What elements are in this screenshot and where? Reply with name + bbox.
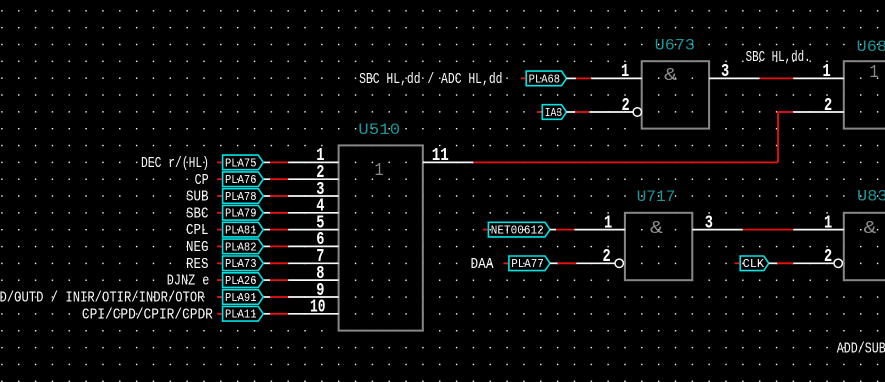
U510 pin 8 wire — [263, 279, 338, 281]
U717 pin 2 number — [603, 247, 611, 267]
U680 pin 2 number — [824, 96, 832, 116]
svg-text:D/OUTD / INIR/OTIR/INDR/OTOR: D/OUTD / INIR/OTIR/INDR/OTOR — [0, 290, 205, 307]
svg-text:PLA77: PLA77 — [511, 258, 544, 271]
svg-text:1: 1 — [870, 62, 879, 83]
svg-text:IA3: IA3 — [545, 107, 563, 120]
svg-text:PLA91: PLA91 — [225, 292, 257, 305]
U717 pin 3 number — [705, 213, 713, 233]
svg-text:1: 1 — [823, 62, 831, 82]
U673 pin 3 number — [721, 62, 729, 82]
net name text DJNZ e — [167, 273, 210, 290]
svg-text:PLA78: PLA78 — [225, 191, 257, 204]
global label PLA76 — [217, 172, 263, 187]
svg-text:U510: U510 — [358, 121, 400, 139]
U680 unit marker 1 — [870, 62, 879, 83]
U717 pin 2 inversion bubble — [615, 259, 623, 267]
svg-text:PLA81: PLA81 — [225, 225, 257, 238]
U836 pin 1 number — [824, 213, 832, 233]
U510 pin 3 wire — [263, 195, 338, 197]
svg-text:1: 1 — [375, 160, 384, 181]
U673 pin 2 number — [622, 96, 630, 116]
global label PLA68 — [521, 71, 567, 86]
highlighted net wire into U680 pin 2 — [778, 111, 793, 113]
svg-text:CPL: CPL — [186, 222, 209, 239]
U836 pin 2 number — [824, 247, 832, 267]
U510 pin 2 wire — [263, 178, 338, 180]
U510 pin 11 output wire (white pin stub) — [423, 161, 474, 163]
wire IA3 to U673 pin 2 — [567, 111, 634, 113]
U510 pin 5 number — [316, 213, 324, 233]
global label PLA91 — [217, 290, 263, 305]
svg-text:CP: CP — [195, 172, 209, 189]
U510 pin 6 number — [316, 230, 324, 250]
global label PLA26 — [217, 273, 263, 288]
net name text RES — [186, 256, 209, 273]
svg-text:2: 2 — [824, 247, 832, 267]
U510 pin 11 number — [432, 146, 449, 166]
svg-text:11: 11 — [432, 146, 449, 166]
U680 reference label — [857, 38, 885, 56]
IC U673 body — [642, 61, 709, 128]
U510 pin 4 wire — [263, 212, 338, 214]
free text SBC HL,dd / ADC HL,dd — [359, 71, 502, 88]
svg-text:SBC HL,dd / ADC HL,dd: SBC HL,dd / ADC HL,dd — [359, 71, 502, 88]
svg-text:U680: U680 — [857, 38, 885, 56]
net name text D/OUTD / INIR/OTIR/INDR/OTOR (clipped left) — [0, 290, 205, 307]
free text ADD/SUB (clipped at right edge) — [837, 341, 885, 358]
svg-text:SUB: SUB — [186, 189, 209, 206]
global label PLA78 — [217, 189, 263, 204]
svg-text:3: 3 — [721, 62, 729, 82]
U673 AND symbol — [664, 66, 677, 86]
svg-text:PLA75: PLA75 — [225, 157, 257, 170]
U673 pin 2 inversion bubble — [633, 108, 641, 116]
IC U717 body — [625, 213, 692, 280]
svg-text:U673: U673 — [655, 37, 695, 55]
svg-text:NET00612: NET00612 — [491, 225, 544, 238]
svg-text:CPI/CPD/CPIR/CPDR: CPI/CPD/CPIR/CPDR — [82, 306, 213, 323]
net name text CP — [195, 172, 209, 189]
IC U680 body (clipped at right edge) — [844, 61, 885, 128]
U510 pin 1 number — [316, 146, 324, 166]
svg-text:DJNZ e: DJNZ e — [167, 273, 210, 290]
svg-text:ADD/SUB r: ADD/SUB r — [837, 341, 885, 358]
U510 pin 5 wire — [263, 229, 338, 231]
U510 unit marker 1 — [375, 160, 384, 181]
net name text NEG — [186, 239, 209, 256]
svg-text:PLA79: PLA79 — [225, 208, 257, 221]
U510 pin 9 wire — [263, 296, 338, 298]
U836 pin 2 inversion bubble — [834, 259, 842, 267]
global label IA3 — [537, 105, 567, 120]
svg-text:&: & — [864, 219, 877, 239]
U673 pin 1 number — [621, 62, 629, 82]
U717 reference label — [637, 188, 676, 206]
U510 pin 1 wire — [263, 161, 338, 163]
U680 pin 2 wire (white pin stub) — [793, 111, 844, 113]
svg-text:SBC: SBC — [186, 205, 209, 222]
svg-text:PLA82: PLA82 — [225, 241, 257, 254]
global label PLA75 — [217, 155, 263, 170]
svg-text:NEG: NEG — [186, 239, 209, 256]
U510 pin 7 number — [316, 247, 324, 267]
global label PLA77 — [503, 256, 550, 271]
wire NET00612 to U717 pin 1 — [550, 229, 625, 231]
global label NET00612 — [483, 222, 550, 237]
svg-text:DAA: DAA — [471, 256, 494, 273]
U510 pin 8 number — [316, 264, 324, 284]
global label PLA79 — [217, 206, 263, 221]
net name text SBC — [186, 205, 209, 222]
U510 pin 10 wire — [263, 313, 338, 315]
U680 pin 1 number — [823, 62, 831, 82]
svg-text:PLA11: PLA11 — [225, 309, 257, 322]
global label PLA11 — [217, 307, 263, 322]
U836 AND symbol — [864, 219, 877, 239]
U510 pin 7 wire — [263, 262, 338, 264]
wire PLA77 to U717 pin 2 — [550, 262, 615, 264]
svg-text:RES: RES — [186, 256, 209, 273]
svg-text:DEC r/(HL): DEC r/(HL) — [141, 155, 209, 172]
svg-text:1: 1 — [824, 213, 832, 233]
svg-text:2: 2 — [824, 96, 832, 116]
svg-text:SBC HL,dd.: SBC HL,dd. — [746, 49, 811, 66]
IC U836 body (clipped at right edge) — [844, 213, 885, 280]
U510 reference label — [358, 121, 400, 139]
global label CLK — [735, 256, 769, 271]
net name text CPL — [186, 222, 209, 239]
highlighted net wire vertical segment — [777, 112, 779, 162]
svg-text:1: 1 — [621, 62, 629, 82]
U510 pin 9 number — [316, 281, 324, 301]
global label PLA73 — [217, 256, 263, 271]
U510 pin 2 number — [316, 163, 324, 183]
svg-text:10: 10 — [310, 298, 326, 318]
U717 pin 1 number — [604, 213, 612, 233]
svg-text:U836: U836 — [857, 188, 885, 206]
U673 pin 3 output wire — [709, 77, 844, 79]
wire CLK to U836 pin 2 — [769, 262, 834, 264]
U836 reference label — [857, 188, 885, 206]
U510 pin 4 number — [316, 197, 324, 217]
global label PLA81 — [217, 222, 263, 237]
global label PLA82 — [217, 239, 263, 254]
U673 reference label — [655, 37, 695, 55]
U510 pin 10 number — [310, 298, 326, 318]
svg-text:&: & — [650, 219, 663, 239]
svg-text:CLK: CLK — [743, 258, 765, 271]
svg-text:PLA73: PLA73 — [225, 258, 257, 271]
svg-text:U717: U717 — [637, 188, 676, 206]
net name text DEC r/(HL) — [141, 155, 209, 172]
svg-text:PLA76: PLA76 — [225, 174, 257, 187]
svg-text:PLA26: PLA26 — [225, 275, 257, 288]
net name text CPI/CPD/CPIR/CPDR — [82, 306, 213, 323]
svg-text:PLA68: PLA68 — [529, 73, 561, 86]
svg-text:2: 2 — [622, 96, 630, 116]
free text SBC HL,dd. — [746, 49, 811, 66]
svg-text:1: 1 — [604, 213, 612, 233]
net name text SUB — [186, 189, 209, 206]
highlighted net wire from U510.11 (horizontal run) — [473, 161, 778, 163]
U717 AND symbol — [650, 219, 663, 239]
svg-text:3: 3 — [705, 213, 713, 233]
IC U510 body — [339, 145, 423, 330]
U717 pin 3 output wire — [692, 229, 844, 231]
U510 pin 3 number — [316, 180, 324, 200]
U510 pin 6 wire — [263, 245, 338, 247]
svg-text:&: & — [664, 66, 677, 86]
wire PLA68 to U673 pin 1 — [567, 77, 642, 79]
free text DAA — [471, 256, 494, 273]
svg-text:2: 2 — [603, 247, 611, 267]
